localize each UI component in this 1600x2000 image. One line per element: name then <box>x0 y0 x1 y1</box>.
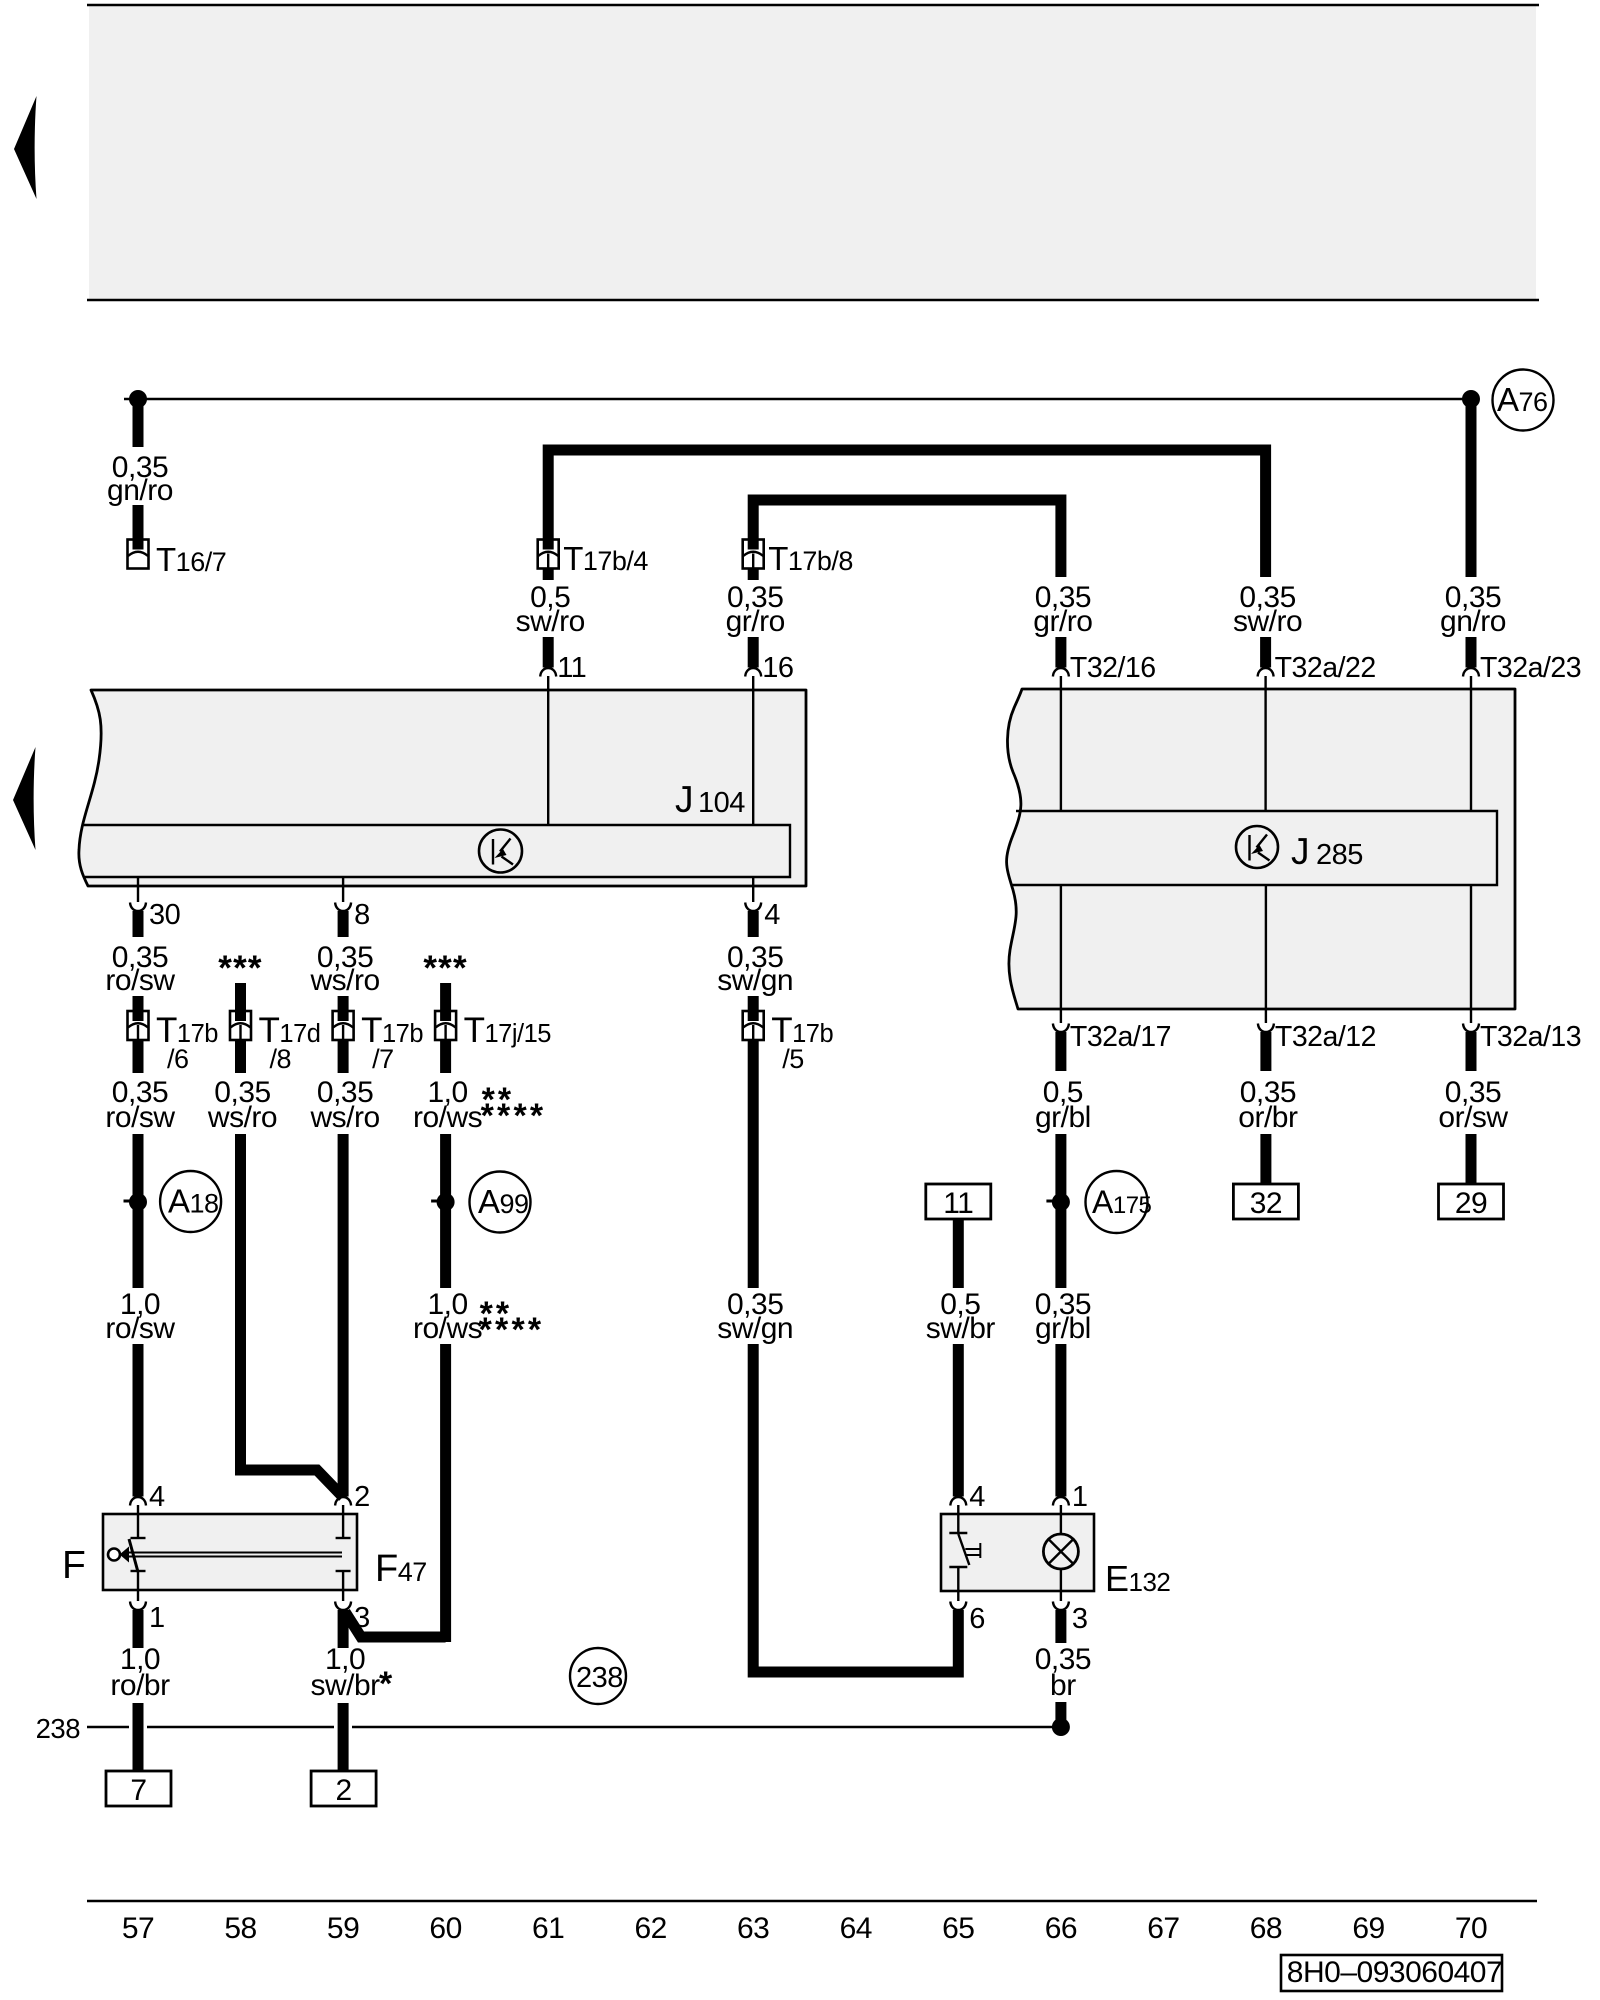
wire J104 pin 4 lead <box>752 877 754 902</box>
svg-text:***: *** <box>218 949 262 988</box>
value label 0,35 or/br T32a/12 <box>1238 1076 1298 1134</box>
wire T32a/13 lead below J285 <box>1470 1009 1472 1023</box>
wire ws/ro below T17d/8 <box>235 1040 246 1073</box>
svg-text:68: 68 <box>1250 1912 1282 1945</box>
pin arrow T32/16 <box>1053 668 1069 677</box>
svg-text:6: 6 <box>969 1603 985 1635</box>
svg-text:60: 60 <box>429 1912 461 1945</box>
wire 0,35 sw/gn below J104 pin 4 <box>748 911 759 937</box>
wire pin 16 lead into J104 <box>752 676 754 825</box>
lamp symbol in E132 <box>1043 1534 1078 1569</box>
svg-text:sw/ro: sw/ro <box>516 605 585 638</box>
svg-text:63: 63 <box>737 1912 769 1945</box>
svg-text:/7: /7 <box>372 1044 394 1074</box>
wire 0,35 gr/ro to J104 pin 16 <box>748 637 759 668</box>
value label 1,0 ro/br <box>110 1643 170 1702</box>
wire 0,35 or/br below T32a/12 <box>1260 1032 1271 1071</box>
value label 0,35 ws/ro pin 8 <box>310 941 380 997</box>
wire 0,35 gn/ro from A76 dot <box>1466 399 1477 577</box>
wire 0,35 gn/ro to T16/7 <box>133 505 144 551</box>
wire 0,35 gn/ro to T32a/23 <box>1466 637 1477 668</box>
connector T17b/4 <box>538 539 559 569</box>
svg-text:/6: /6 <box>167 1044 189 1074</box>
node A175 <box>1086 1171 1152 1233</box>
svg-text:A99: A99 <box>478 1183 529 1220</box>
svg-text:64: 64 <box>840 1912 872 1945</box>
value label 1,0 ro/ws lower <box>413 1288 482 1345</box>
svg-text:59: 59 <box>327 1912 359 1945</box>
node A76 <box>1493 370 1554 431</box>
wire or/br to box 32 <box>1260 1134 1271 1184</box>
wire *** wire into T17d/8 <box>235 983 246 1022</box>
pin arrow J104/4 <box>745 903 761 912</box>
wire 0,5 sw/ro / 0,35 sw/ro link <box>548 450 1265 577</box>
svg-text:7: 7 <box>130 1774 146 1807</box>
value label 0,35 gr/ro left <box>726 581 785 638</box>
svg-text:F: F <box>62 1544 85 1587</box>
svg-text:sw/gn: sw/gn <box>717 964 793 997</box>
node junction A175 <box>1046 1193 1070 1211</box>
pin arrow F/3 <box>335 1602 351 1611</box>
pin arrow F/2 <box>335 1497 351 1506</box>
pin arrow E132/6 <box>950 1602 966 1611</box>
pin arrow T32a/17 <box>1053 1024 1069 1033</box>
svg-text:sw/gn: sw/gn <box>717 1312 793 1345</box>
wire ro/sw into T17b/6 <box>133 996 144 1022</box>
svg-text:2: 2 <box>336 1774 352 1807</box>
node A18 <box>160 1171 221 1232</box>
svg-text:or/br: or/br <box>1238 1101 1298 1134</box>
wire 0,5 sw/br to E132 pin 4 <box>953 1344 964 1497</box>
svg-text:/5: /5 <box>782 1044 804 1074</box>
wire T32a/13 lead inside J285 <box>1470 885 1472 1009</box>
wire net A76 rail <box>124 398 1471 400</box>
value label 1,0 ro/ws upper <box>413 1076 482 1134</box>
switch contact symbol in E132 <box>949 1533 980 1567</box>
value label 0,5 sw/ro <box>516 581 585 638</box>
value label 1,0 ro/sw <box>105 1288 175 1345</box>
wire or/sw to box 29 <box>1466 1134 1477 1184</box>
wire E132 pin 6 lead <box>957 1567 959 1601</box>
drawing number box <box>1281 1955 1502 1991</box>
wire F pin 1 lead <box>137 1571 139 1601</box>
svg-text:br: br <box>1050 1669 1076 1702</box>
svg-text:62: 62 <box>635 1912 667 1945</box>
value label 0,35 ro/sw pin 30 <box>105 941 175 997</box>
svg-text:67: 67 <box>1147 1912 1179 1945</box>
wire ro/sw below T17b/6 <box>133 1040 144 1073</box>
F pin 3 contact bar <box>336 1570 351 1572</box>
pin arrow F/1 <box>130 1602 146 1611</box>
svg-text:29: 29 <box>1455 1187 1487 1220</box>
pin arrow T32a/13 <box>1463 1024 1479 1033</box>
svg-text:4: 4 <box>764 899 780 931</box>
svg-text:A18: A18 <box>168 1183 219 1220</box>
wire ro/ws to junction A99 <box>440 1134 451 1288</box>
grid baseline <box>87 1900 1537 1902</box>
svg-text:gn/ro: gn/ro <box>1440 605 1506 638</box>
svg-text:F47: F47 <box>375 1548 427 1590</box>
node junction on A76 rail left <box>129 390 147 408</box>
wire ro/sw to junction A18 <box>133 1134 144 1288</box>
svg-text:1: 1 <box>149 1602 165 1634</box>
node junction on A76 rail right <box>1462 390 1480 408</box>
value label 0,35 gr/ro right <box>1033 581 1092 638</box>
svg-text:8: 8 <box>354 899 370 931</box>
wire T32a/17 lead below J285 <box>1060 1009 1062 1023</box>
wire 1,0 ro/br below F pin 1 <box>133 1610 144 1648</box>
wire pin 11 lead into J104 <box>547 676 549 825</box>
wire F pin 2 lead <box>342 1505 344 1538</box>
terminal box 32 <box>1233 1184 1298 1220</box>
value label 0,35 sw/gn lower <box>717 1288 793 1345</box>
wire 0,35 br to ground point 238 <box>1055 1702 1066 1722</box>
wire sw/gn into T17b/5 <box>748 996 759 1022</box>
svg-text:ro/ws: ro/ws <box>413 1101 482 1134</box>
wire 0,35 gr/ro to T32/16 <box>1055 637 1066 668</box>
node A99 <box>470 1172 531 1233</box>
value label 0,35 ws/ro col58 <box>207 1076 277 1134</box>
wire T32a/17 lead inside J285 <box>1060 885 1062 1009</box>
svg-text:gr/bl: gr/bl <box>1035 1101 1091 1134</box>
F pin 1 contact bar <box>131 1570 146 1572</box>
relay symbol K inside J285 <box>1236 826 1278 868</box>
wire 0,35 gr/bl to E132 pin 1 <box>1055 1344 1066 1497</box>
svg-text:ro/ws: ro/ws <box>413 1312 482 1345</box>
svg-text:238: 238 <box>36 1713 81 1744</box>
pin arrow T32a/23 <box>1463 668 1479 677</box>
svg-text:11: 11 <box>943 1187 973 1220</box>
svg-text:4: 4 <box>149 1481 165 1513</box>
svg-text:T32a/12: T32a/12 <box>1275 1021 1376 1053</box>
svg-text:gr/ro: gr/ro <box>726 605 785 638</box>
svg-text:gn/ro: gn/ro <box>107 474 173 507</box>
wire 0,35 gn/ro from A76 rail <box>133 399 144 447</box>
svg-text:gr/bl: gr/bl <box>1035 1312 1091 1345</box>
F pin 4 contact bar <box>131 1537 146 1539</box>
node junction A18 <box>124 1193 148 1211</box>
svg-text:*: * <box>379 1665 393 1703</box>
wire ws/ro to F pin 2 <box>338 1134 349 1497</box>
wire E132 pin 3 lead <box>1060 1569 1062 1601</box>
value label 0,35 gn/ro <box>107 451 173 507</box>
wire 0,35 gr/ro link <box>753 500 1061 577</box>
wire ro/ws below T17j/15 <box>440 1040 451 1073</box>
terminal box 29 <box>1439 1184 1504 1220</box>
header panel <box>87 5 1539 300</box>
svg-text:ro/sw: ro/sw <box>105 1312 175 1345</box>
svg-text:T17j/15: T17j/15 <box>464 1011 552 1050</box>
connector T17j/15 <box>435 1011 456 1041</box>
pin arrow E132/1 <box>1053 1497 1069 1506</box>
svg-text:/8: /8 <box>270 1044 292 1074</box>
svg-text:T32/16: T32/16 <box>1070 652 1156 684</box>
svg-text:57: 57 <box>122 1912 154 1945</box>
value label 0,35 sw/gn pin 4 <box>717 941 793 997</box>
svg-text:T17b/4: T17b/4 <box>563 540 648 577</box>
page marker arrow top <box>14 96 37 199</box>
connector T17b/5 <box>743 1011 764 1041</box>
svg-text:ws/ro: ws/ro <box>310 964 380 997</box>
wire E132 pin 1 lead <box>1060 1505 1062 1534</box>
relay symbol K inside J104 <box>479 830 522 873</box>
wire gr/bl to junction A175 <box>1055 1134 1066 1288</box>
wire 0,5 sw/br below box 11 <box>953 1219 964 1288</box>
wire 0,35 or/sw below T32a/13 <box>1466 1032 1477 1071</box>
wire 0,5 sw/ro to J104 pin 11 <box>543 637 554 668</box>
wire T32a/12 lead below J285 <box>1265 1009 1267 1023</box>
svg-text:E132: E132 <box>1105 1558 1170 1599</box>
value label 0,35 sw/ro <box>1233 581 1302 638</box>
wire 0,5 gr/bl below T32a/17 <box>1055 1032 1066 1071</box>
svg-text:ws/ro: ws/ro <box>310 1101 380 1134</box>
wire 0,35 sw/gn long run <box>748 1040 759 1288</box>
svg-text:4: 4 <box>969 1481 985 1513</box>
svg-text:ws/ro: ws/ro <box>207 1101 277 1134</box>
value label 0,35 gn/ro right <box>1440 581 1506 638</box>
wire T32a/12 lead inside J285 <box>1265 885 1267 1009</box>
wire pin T32a/22 lead into J285 <box>1264 676 1266 811</box>
wire J104 pin 30 lead <box>137 877 139 902</box>
connector T17b/8 <box>743 539 764 569</box>
svg-text:****: **** <box>479 1311 545 1349</box>
svg-text:or/sw: or/sw <box>1438 1101 1508 1134</box>
connector T16/7 <box>128 539 149 569</box>
svg-text:A76: A76 <box>1497 381 1548 418</box>
svg-text:16: 16 <box>762 652 793 684</box>
wire sw/gn to E132 pin 6 <box>753 1344 958 1672</box>
svg-text:58: 58 <box>224 1912 256 1945</box>
wire 0,35 ws/ro below J104 pin 8 <box>338 911 349 937</box>
connector T17d/8 <box>230 1011 251 1041</box>
svg-text:30: 30 <box>149 899 180 931</box>
wire F pin 3 lead <box>342 1571 344 1601</box>
value label 0,5 gr/bl T32a/17 <box>1035 1076 1091 1134</box>
value label 0,35 ro/sw lower <box>105 1076 175 1134</box>
wire ws/ro below T17b/7 <box>338 1040 349 1073</box>
svg-text:T32a/17: T32a/17 <box>1070 1021 1171 1053</box>
wire sw/br branch to ro/ws junction <box>345 1612 446 1637</box>
svg-text:****: **** <box>481 1097 547 1135</box>
svg-text:ro/sw: ro/sw <box>105 1101 175 1134</box>
pin arrow F/4 <box>130 1497 146 1506</box>
wire 0,35 ro/sw below J104 pin 30 <box>133 911 144 937</box>
svg-text:1: 1 <box>1072 1481 1088 1513</box>
svg-text:T32a/23: T32a/23 <box>1480 652 1581 684</box>
svg-text:T32a/13: T32a/13 <box>1480 1021 1581 1053</box>
svg-text:238: 238 <box>576 1662 623 1694</box>
svg-text:61: 61 <box>532 1912 564 1945</box>
pin arrow J104/16 <box>745 668 761 677</box>
svg-text:T32a/22: T32a/22 <box>1275 652 1376 684</box>
pin arrow J104/8 <box>335 903 351 912</box>
wire 0,35 br below E132 pin 3 <box>1055 1610 1066 1643</box>
connector T17b/6 <box>128 1011 149 1041</box>
svg-text:***: *** <box>423 949 467 988</box>
switch-lamp unit E132 box <box>941 1514 1094 1591</box>
svg-text:70: 70 <box>1455 1912 1487 1945</box>
pin arrow E132/4 <box>950 1497 966 1506</box>
value label 0,35 gr/bl <box>1035 1288 1091 1345</box>
svg-text:8H0–093060407: 8H0–093060407 <box>1287 1956 1502 1989</box>
fuse element <box>108 1539 342 1572</box>
wire F pin 4 lead <box>137 1505 139 1538</box>
svg-text:69: 69 <box>1352 1912 1384 1945</box>
svg-text:ro/br: ro/br <box>110 1669 170 1702</box>
wire 1,0 ro/br to terminal 7 <box>133 1703 144 1772</box>
pin arrow T32a/22 <box>1258 668 1274 677</box>
page marker arrow middle <box>13 747 36 850</box>
wire 1,0 ro/sw to F pin 4 <box>133 1344 144 1497</box>
pin arrow J104/30 <box>130 903 146 912</box>
wire ro/ws down to junction with F pin 3 <box>440 1344 451 1642</box>
svg-text:T16/7: T16/7 <box>156 541 226 578</box>
ground wire 238 <box>87 1726 1052 1728</box>
wire pin T32a/23 lead into J285 <box>1470 676 1472 811</box>
wire 0,35 sw/ro to T32a/22 <box>1260 637 1271 668</box>
terminal box 11 <box>926 1184 991 1220</box>
wire *** wire into T17j/15 <box>440 983 451 1022</box>
wire ws/ro corner to F pin 2 <box>241 1134 344 1497</box>
svg-text:65: 65 <box>942 1912 974 1945</box>
wire 1,0 sw/br to terminal 2 <box>338 1703 349 1772</box>
terminal box 2 <box>311 1771 376 1807</box>
connector T17b/7 <box>333 1011 354 1041</box>
wire E132 pin 4 lead <box>957 1505 959 1533</box>
node ground junction 238 <box>1052 1718 1070 1736</box>
svg-text:2: 2 <box>354 1481 370 1513</box>
svg-text:11: 11 <box>557 652 586 684</box>
value label 1,0 sw/br <box>311 1643 381 1702</box>
pin arrow E132/3 <box>1053 1602 1069 1611</box>
svg-text:32: 32 <box>1250 1187 1282 1220</box>
svg-text:T17b/8: T17b/8 <box>768 540 853 577</box>
wire J104 pin 8 lead <box>342 877 344 902</box>
value label 0,35 ws/ro col59 <box>310 1076 380 1134</box>
wire 0,35 gr/ro stub below T17b/8 <box>748 568 759 580</box>
svg-text:3: 3 <box>1072 1603 1088 1635</box>
F pin 2 contact bar <box>336 1537 351 1539</box>
wire ws/ro into T17b/7 <box>338 996 349 1022</box>
svg-text:ro/sw: ro/sw <box>105 964 175 997</box>
wire pin T32/16 lead into J285 <box>1060 676 1062 811</box>
pin arrow T32a/12 <box>1258 1024 1274 1033</box>
fuse F47 box <box>103 1514 357 1590</box>
value label 0,35 br <box>1035 1643 1091 1702</box>
svg-text:66: 66 <box>1045 1912 1077 1945</box>
svg-text:sw/br: sw/br <box>311 1669 381 1702</box>
control unit J285 box <box>1007 689 1515 1009</box>
node junction A99 <box>431 1193 455 1211</box>
svg-text:sw/br: sw/br <box>926 1312 996 1345</box>
terminal box 7 <box>106 1771 171 1807</box>
value label 0,5 sw/br <box>926 1288 996 1345</box>
svg-text:sw/ro: sw/ro <box>1233 605 1302 638</box>
control unit J104 box <box>79 690 806 886</box>
node 238 <box>570 1648 626 1704</box>
svg-text:gr/ro: gr/ro <box>1033 605 1092 638</box>
value label 0,35 or/sw T32a/13 <box>1438 1076 1508 1134</box>
wire 0,5 sw/ro stub below T17b/4 <box>543 568 554 580</box>
pin arrow J104/11 <box>540 668 556 677</box>
wire sw/br stub below F pin 3 <box>338 1610 349 1648</box>
